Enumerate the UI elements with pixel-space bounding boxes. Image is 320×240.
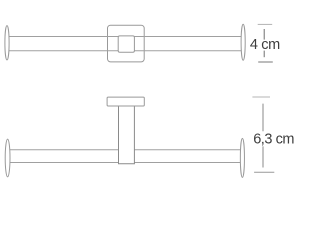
- right end disc (top): [241, 24, 245, 60]
- right end disc (bottom): [240, 138, 244, 177]
- post: [119, 105, 135, 164]
- dimension 4 cm: [258, 23, 273, 25]
- left end disc (bottom): [5, 139, 10, 177]
- bar (bottom figure): [8, 150, 243, 163]
- post boss (inner square): [118, 36, 134, 52]
- wall cap: [107, 97, 144, 106]
- svg-text:6,3 cm: 6,3 cm: [253, 131, 294, 147]
- wall plate (outer rounded square): [108, 25, 145, 62]
- svg-text:4 cm: 4 cm: [250, 37, 280, 53]
- dimension 6,3 cm: [252, 96, 270, 98]
- bar (top figure): [7, 37, 243, 51]
- left end disc (top): [5, 26, 9, 60]
